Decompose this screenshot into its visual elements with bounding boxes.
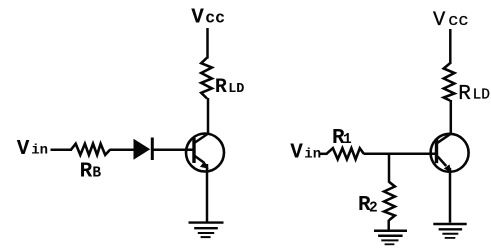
svg-text:R: R	[458, 83, 471, 106]
svg-text:2: 2	[369, 200, 378, 216]
svg-text:1: 1	[343, 132, 352, 148]
svg-text:V: V	[191, 6, 204, 29]
svg-text:cc: cc	[205, 8, 225, 27]
svg-text:LD: LD	[228, 82, 244, 97]
svg-text:in: in	[31, 143, 48, 159]
svg-text:cc: cc	[448, 12, 468, 31]
svg-text:in: in	[304, 146, 321, 162]
svg-text:V: V	[17, 138, 30, 161]
svg-text:B: B	[92, 166, 101, 182]
svg-text:R: R	[215, 76, 227, 99]
svg-text:R: R	[80, 161, 93, 184]
svg-text:V: V	[290, 141, 303, 164]
svg-text:LD: LD	[473, 87, 490, 103]
svg-text:V: V	[433, 9, 446, 32]
